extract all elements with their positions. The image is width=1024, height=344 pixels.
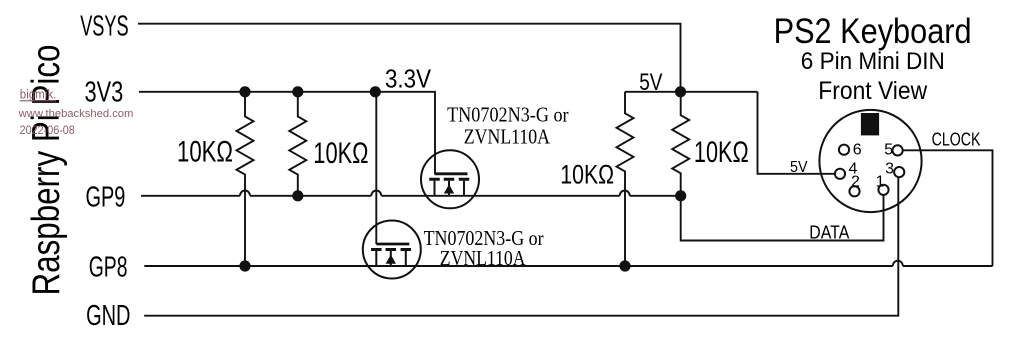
wire Q2 gate vertical (3.3V to Q2)	[375, 92, 377, 244]
wire hop over pin3 drop at GP8	[893, 261, 903, 266]
pin 1 circle	[878, 185, 888, 195]
svg-text:bigmik.: bigmik.	[20, 87, 57, 102]
junction 3V3/R1	[239, 86, 250, 97]
svg-text:2: 2	[851, 174, 860, 191]
transistor Q2 MOSFET TN0702 (GP8/CLOCK level shifter)	[363, 221, 421, 279]
wire GP9 line with hops	[141, 195, 681, 197]
connector J1 6-pin mini DIN outline	[819, 110, 921, 212]
svg-text:Front View: Front View	[818, 77, 928, 105]
svg-text:ZVNL110A: ZVNL110A	[440, 246, 526, 270]
svg-text:GP9: GP9	[86, 181, 126, 213]
wire hop over R3 at GP9	[620, 191, 630, 196]
wire 5V to DIN pin 4	[758, 92, 835, 174]
wire hop over R1 at GP9	[240, 191, 250, 196]
svg-text:1: 1	[876, 174, 885, 191]
svg-text:6 Pin Mini DIN: 6 Pin Mini DIN	[801, 48, 945, 75]
svg-text:2022-06-08: 2022-06-08	[20, 123, 75, 137]
svg-text:3.3V: 3.3V	[385, 64, 432, 94]
transistor Q1 MOSFET TN0702 (GP9/DATA level shifter)	[421, 150, 479, 208]
wire DATA (GP9 net to DIN pin 1)	[681, 195, 884, 241]
junction GP9/R2	[292, 190, 303, 201]
junction GP8/R3	[619, 260, 630, 271]
svg-text:Raspberry Pi Pico: Raspberry Pi Pico	[25, 45, 68, 296]
svg-text:CLOCK: CLOCK	[932, 129, 981, 149]
node 3V3 wire (3.3V rail, corner down to Q1 gate)	[139, 92, 435, 174]
pin 5 circle	[893, 145, 903, 155]
svg-text:DATA: DATA	[809, 223, 849, 243]
svg-text:10KΩ: 10KΩ	[560, 159, 614, 189]
wire GND line up to DIN pin 3	[144, 177, 898, 316]
svg-text:www.thebackshed.com: www.thebackshed.com	[18, 108, 134, 120]
resistor R2 10K (3V3 pullup to GP9)	[289, 92, 306, 196]
pin 6 circle	[839, 145, 849, 155]
node 5V rail	[625, 91, 758, 93]
svg-text:3: 3	[885, 161, 894, 178]
connector J1 key notch	[861, 113, 879, 135]
pin 4 circle	[835, 169, 845, 179]
junction 3V3/R2	[292, 86, 303, 97]
svg-text:3V3: 3V3	[85, 76, 124, 108]
svg-text:10KΩ: 10KΩ	[313, 137, 368, 170]
svg-text:5: 5	[884, 142, 893, 159]
svg-text:6: 6	[853, 142, 862, 159]
svg-text:10KΩ: 10KΩ	[694, 136, 749, 169]
svg-text:VSYS: VSYS	[80, 11, 128, 43]
junction GP9/R4/DATA	[675, 190, 686, 201]
wire hop over Q2 gate at GP9	[371, 191, 381, 196]
pin 3 circle	[894, 167, 904, 177]
watermark bigmik underline	[20, 100, 57, 102]
junction 3V3/Q2 gate	[370, 86, 381, 97]
svg-text:ZVNL110A: ZVNL110A	[464, 125, 551, 149]
svg-text:5V: 5V	[639, 69, 662, 96]
pin 2 circle	[849, 186, 859, 196]
resistor R4 10K (5V pullup to DATA)	[672, 92, 689, 196]
svg-text:10KΩ: 10KΩ	[177, 136, 233, 169]
node VSYS wire (to 5V vertical)	[138, 24, 681, 92]
junction GP8/R1	[239, 260, 250, 271]
junction 5V/VSYS/R4	[675, 86, 686, 97]
svg-text:GP8: GP8	[89, 251, 128, 283]
resistor R3 10K (5V pullup to GP8/CLOCK)	[617, 92, 634, 266]
wire CLOCK (DIN pin 5 to GP8 net)	[903, 150, 993, 266]
svg-text:5V: 5V	[790, 159, 808, 176]
resistor R1 10K (3V3 pullup to GP8 column)	[237, 92, 254, 266]
svg-text:PS2 Keyboard: PS2 Keyboard	[774, 12, 972, 51]
svg-text:GND: GND	[86, 300, 130, 332]
wire GP8 line with hop	[144, 265, 992, 267]
svg-text:TN0702N3-G or: TN0702N3-G or	[447, 102, 569, 126]
